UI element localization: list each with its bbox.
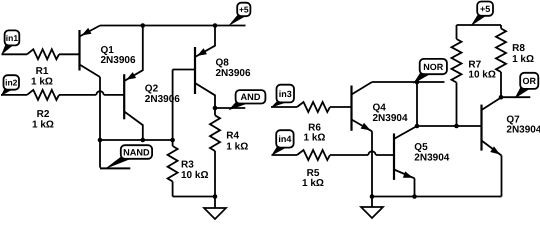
wire AND node: [215, 107, 245, 109]
svg-text:1 kΩ: 1 kΩ: [31, 76, 53, 87]
junction Q8.emitter-rail: [213, 23, 218, 28]
resistor R3: [168, 140, 178, 197]
junction Q5.emitter-rail: [412, 194, 417, 199]
junction R7-node: [454, 124, 459, 129]
svg-text:R3: R3: [181, 159, 194, 170]
label R3 value: [181, 159, 208, 181]
junction ground left: [213, 194, 218, 199]
label Q1: [101, 45, 136, 66]
net flag in4: [271, 130, 293, 156]
label Q7: [506, 114, 540, 135]
svg-text:2N3904: 2N3904: [414, 153, 449, 164]
wire +5 rail right: [457, 24, 502, 26]
resistor R8: [496, 25, 506, 97]
svg-text:10 kΩ: 10 kΩ: [468, 70, 495, 81]
wire bottom rail right: [372, 196, 502, 198]
resistor R4: [210, 108, 220, 197]
junction Q2.collector-node: [141, 138, 146, 143]
label R1 value: [31, 66, 53, 87]
label R6 value: [304, 122, 326, 143]
wire R2-Q2.base: [59, 91, 124, 95]
wire in1-R1: [2, 53, 28, 55]
wire NAND node: [100, 139, 173, 141]
ground left: [204, 197, 226, 220]
junction AND node: [213, 106, 218, 111]
resistor R1: [27, 49, 59, 59]
junction NOR node: [415, 80, 420, 85]
wire node-Q8.base: [173, 70, 195, 141]
svg-text:+5: +5: [480, 4, 490, 14]
net flag AND: [229, 90, 266, 110]
svg-text:1 kΩ: 1 kΩ: [304, 133, 326, 144]
svg-text:2N3906: 2N3906: [216, 68, 251, 79]
wire Q7.emitter-rail: [501, 156, 503, 197]
wire R3-ground: [173, 196, 215, 198]
transistor Q2: [124, 26, 143, 141]
net flag NAND: [105, 145, 153, 169]
net flag NOR: [413, 59, 447, 84]
svg-text:in2: in2: [5, 78, 18, 88]
transistor Q7: [482, 97, 502, 155]
transistor Q1: [80, 26, 101, 78]
wire Q4.collector-NOR: [372, 81, 445, 83]
ground right: [361, 197, 383, 219]
label Q4: [373, 103, 408, 124]
svg-text:1 kΩ: 1 kΩ: [226, 142, 248, 153]
wire OR node: [501, 96, 530, 98]
svg-text:2N3906: 2N3906: [101, 55, 136, 66]
wire node-Q7.base: [417, 125, 482, 127]
resistor R2: [27, 90, 59, 100]
resistor R6: [297, 102, 330, 112]
transistor Q5: [394, 126, 417, 180]
junction R3-node: [170, 138, 175, 143]
transistor Q4: [352, 82, 373, 131]
svg-text:OR: OR: [523, 76, 537, 86]
svg-text:2N3904: 2N3904: [373, 113, 408, 124]
resistor R7: [452, 25, 462, 126]
label R5 value: [302, 168, 324, 189]
label Q5: [414, 142, 449, 163]
label R8 value: [512, 43, 534, 65]
junction OR node: [499, 95, 504, 100]
svg-text:NOR: NOR: [423, 62, 444, 72]
net flag OR: [515, 73, 539, 99]
label Q2: [145, 84, 180, 105]
svg-text:+5: +5: [239, 5, 249, 15]
junction Q2.emitter-rail: [141, 23, 146, 28]
svg-text:R4: R4: [226, 130, 239, 141]
net flag in1: [1, 30, 19, 55]
wire in4-R5: [272, 154, 298, 156]
junction node2: [415, 124, 420, 129]
wire in2-R2: [1, 94, 27, 96]
wire NOR-node-down: [416, 82, 418, 126]
wire R5-Q5.base: [330, 151, 394, 155]
wire Q1.collector: [100, 77, 130, 168]
wire Q5.emitter-rail: [414, 178, 416, 196]
wire +5 rail left: [100, 25, 246, 27]
wire R1-Q1.base: [59, 53, 80, 55]
svg-text:1 kΩ: 1 kΩ: [302, 178, 324, 189]
label R2 value: [32, 109, 54, 131]
transistor Q8: [195, 26, 215, 109]
wire R6-Q4.base: [330, 106, 352, 108]
wire Q4.emitter-ground: [371, 131, 373, 196]
net flag in2: [1, 75, 19, 96]
svg-text:in1: in1: [6, 33, 19, 43]
net flag in3: [271, 85, 294, 108]
svg-text:in4: in4: [278, 134, 291, 144]
svg-text:NAND: NAND: [123, 147, 150, 157]
net flag +5 right: [471, 2, 494, 27]
svg-text:2N3904: 2N3904: [506, 125, 540, 136]
label R4 value: [226, 130, 248, 152]
svg-text:R8: R8: [512, 43, 525, 54]
label R7 value: [468, 59, 495, 80]
svg-text:1 kΩ: 1 kΩ: [512, 54, 534, 65]
svg-text:10 kΩ: 10 kΩ: [181, 170, 208, 181]
svg-text:1 kΩ: 1 kΩ: [32, 119, 54, 130]
wire in3-R6: [271, 106, 297, 108]
resistor R5: [297, 150, 330, 160]
svg-text:in3: in3: [279, 89, 292, 99]
label Q8: [216, 58, 251, 79]
svg-text:AND: AND: [241, 92, 261, 102]
junction node NAND left: [98, 138, 103, 143]
svg-text:R2: R2: [37, 109, 50, 120]
svg-text:2N3906: 2N3906: [145, 94, 180, 105]
junction ground right: [370, 194, 375, 199]
net flag +5 left: [228, 3, 250, 27]
